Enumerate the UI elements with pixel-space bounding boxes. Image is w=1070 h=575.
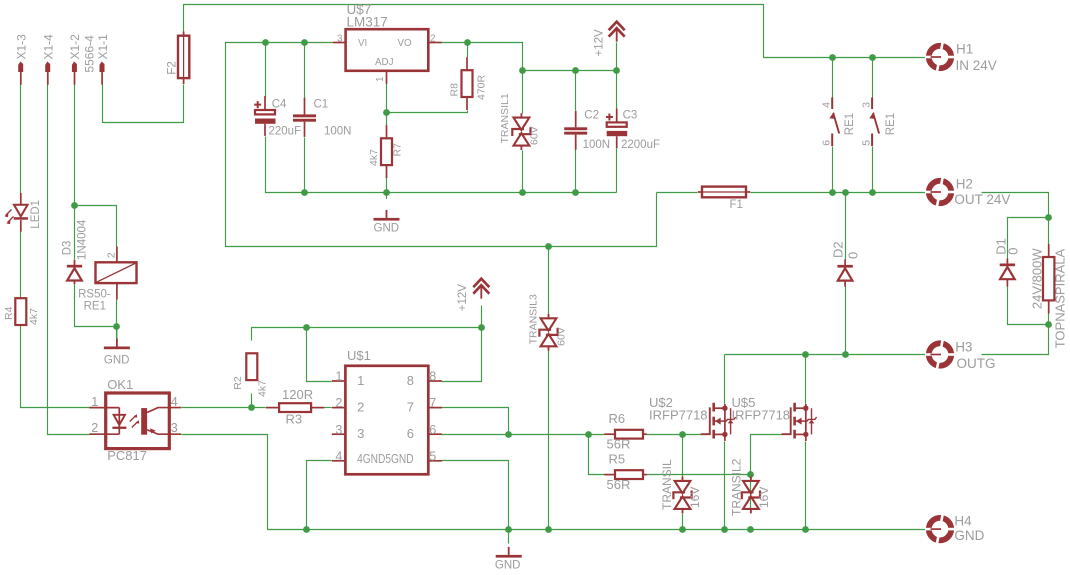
junction rail-TR1 (519, 189, 526, 196)
wire X1-2 to relay coil pin2 (75, 206, 117, 247)
wire IN24V to contact RE1 pin4 (832, 58, 834, 98)
svg-text:0: 0 (845, 252, 860, 259)
junction OUT-RE1b (869, 189, 876, 196)
diode D2 (844, 259, 846, 265)
svg-text:C4: C4 (272, 99, 287, 111)
svg-text:1: 1 (357, 373, 364, 388)
wire OUTG to U$5 drain (805, 355, 807, 404)
wire top to D1 (1008, 218, 1049, 259)
svg-text:H3: H3 (955, 340, 972, 355)
svg-text:5: 5 (429, 449, 436, 463)
resistor R8 (466, 57, 468, 70)
svg-text:60V: 60V (528, 126, 540, 145)
resistor R6 (604, 433, 615, 435)
svg-text:GND: GND (954, 528, 984, 543)
svg-text:4k7: 4k7 (368, 149, 380, 166)
optocoupler OK1 PC817 (106, 393, 170, 449)
svg-text:VI: VI (358, 38, 367, 49)
svg-text:1: 1 (375, 77, 386, 82)
svg-text:1N4004: 1N4004 (77, 219, 89, 260)
capacitor C1 (293, 114, 316, 117)
wire R7 bottom to rail (386, 165, 388, 193)
wire VI to C4 top (265, 43, 267, 98)
junction OUT-RE1a (829, 189, 836, 196)
svg-text:R4: R4 (3, 306, 15, 320)
wire R4 to OK1 pin1 (21, 326, 90, 408)
wire F1 to H2 OUT24V (751, 192, 926, 194)
fuse F2 (183, 32, 185, 37)
svg-text:LED1: LED1 (30, 200, 42, 229)
wire X1-4 to OK1 pin2 (48, 85, 90, 435)
svg-text:TRANSIL3: TRANSIL3 (527, 294, 539, 344)
junction OUT-D2 (842, 189, 849, 196)
svg-text:2: 2 (335, 396, 342, 410)
wire R3 to U$1 pin2 (325, 407, 332, 409)
wire node to R5 (589, 435, 605, 475)
svg-text:+12V: +12V (457, 284, 469, 312)
supply +12V arrow above U$1 (473, 279, 489, 288)
junction R2-R3 (248, 404, 255, 411)
svg-text:PC817: PC817 (107, 448, 147, 463)
svg-text:U$1: U$1 (347, 348, 371, 363)
wire TRANSIL2 node to U$5 gate (751, 435, 783, 475)
ground symbol under U$1 rail (508, 547, 510, 555)
svg-text:C3: C3 (623, 110, 638, 122)
wire top to load R (1048, 218, 1050, 245)
svg-text:R2: R2 (232, 376, 244, 390)
wire +12V row R2 to arrow (252, 328, 482, 341)
svg-text:+12V: +12V (594, 29, 606, 57)
junction gnd-pin4 (303, 526, 310, 533)
svg-text:6: 6 (820, 140, 832, 146)
junction gnd-U$5 (802, 526, 809, 533)
svg-text:1: 1 (335, 370, 342, 384)
svg-text:56R: 56R (607, 477, 631, 492)
svg-text:LM317: LM317 (347, 14, 388, 29)
svg-text:RE1: RE1 (885, 113, 897, 135)
svg-text:ADJ: ADJ (375, 57, 394, 68)
resistor R2 (246, 353, 257, 380)
wire gnd rail to GND sym (508, 530, 510, 544)
svg-text:X1-1: X1-1 (96, 34, 110, 60)
wire X1-2 down to D3 (74, 85, 76, 260)
svg-text:16V: 16V (688, 487, 702, 508)
wire ADJ node to R8 bottom (387, 111, 468, 113)
junction rail-R7 (383, 189, 390, 196)
wire C3 bottom to rail (616, 149, 618, 193)
svg-text:F2: F2 (166, 61, 178, 74)
wire +12V to C3 top (616, 71, 618, 109)
junction OUTG-U$5 (802, 351, 809, 358)
resistor R7 (386, 125, 388, 138)
svg-text:X1-4: X1-4 (41, 34, 55, 60)
svg-text:8: 8 (429, 370, 436, 384)
svg-text:470R: 470R (475, 74, 487, 100)
wire +12V to C2 top (575, 71, 577, 111)
svg-text:4: 4 (171, 395, 178, 409)
svg-text:X1-3: X1-3 (15, 34, 29, 60)
junction gnd-U$2 (721, 526, 728, 533)
wire C2 bottom to rail (575, 150, 577, 193)
wire LED1 to R4 (20, 232, 22, 299)
junction IN-RE1a (829, 54, 836, 61)
junction 12V-C2 (572, 67, 579, 74)
wire load bottom to H3 (982, 325, 1049, 355)
wire VI to C1 top (304, 43, 306, 99)
connector pin X1-4 (45, 62, 50, 73)
junction 12V-C3 (613, 67, 620, 74)
connector H2 (929, 181, 951, 203)
svg-text:2: 2 (357, 400, 364, 415)
junction R5-TRANSIL2 (747, 471, 754, 478)
wire TRANSIL3 bottom to gnd rail (548, 351, 550, 530)
wire +12V to U$1 pin1 (307, 328, 332, 382)
junction 12V-arrow (478, 324, 485, 331)
svg-text:24V/800W: 24V/800W (1029, 248, 1044, 309)
wire +12V to U$1 pin8 (442, 328, 482, 382)
wire coil node to GND sym (116, 327, 118, 339)
svg-text:2200uF: 2200uF (621, 139, 660, 151)
wire F2 to H1 IN24V bus (184, 5, 926, 58)
svg-text:H1: H1 (956, 42, 973, 57)
svg-text:120R: 120R (282, 387, 313, 402)
junction R6-R5 (585, 431, 592, 438)
wire +12V rail to supply arrow (616, 43, 618, 71)
wire U$1 pin6 to R6 (442, 434, 605, 436)
junction ADJ (383, 109, 390, 116)
connector H4 (929, 518, 951, 540)
svg-text:H2: H2 (956, 177, 973, 192)
svg-text:GND: GND (495, 560, 521, 572)
svg-text:3: 3 (337, 34, 343, 45)
junction loop-TR3 (545, 243, 552, 250)
svg-text:TRANSIL1: TRANSIL1 (499, 93, 511, 143)
connector H3 (929, 343, 951, 365)
supply +12V arrow near C3 (609, 22, 625, 31)
wire C4 bottom + LM gnd rail (266, 137, 617, 193)
wire OUTG to U$2 drain (724, 355, 726, 404)
svg-text:4k7: 4k7 (28, 308, 40, 325)
junction OUTG-D2 (842, 351, 849, 358)
IC U$1 (345, 366, 428, 475)
junction gnd-TRANSIL2 (747, 526, 754, 533)
junction 12V-pin1 (303, 324, 310, 331)
junction IN-RE1b (869, 54, 876, 61)
svg-text:8: 8 (407, 373, 414, 388)
resistor R5 (604, 474, 615, 476)
wire VO to R8 top (467, 43, 469, 58)
junction pin7-pin6 (505, 431, 512, 438)
wire D3 bottom to coil gnd (75, 285, 117, 327)
wire D1 bottom (1008, 287, 1049, 325)
svg-text:4GND5GND: 4GND5GND (357, 452, 414, 466)
relay coil RE1 RS50 (116, 247, 118, 263)
svg-text:R6: R6 (609, 411, 626, 426)
junction VI-C1 (301, 39, 308, 46)
svg-text:5566-4: 5566-4 (82, 35, 96, 73)
svg-text:R3: R3 (286, 412, 303, 427)
wire gate node to TRANSIL (682, 435, 684, 477)
wire load R bottom (1048, 314, 1050, 325)
svg-text:6: 6 (429, 423, 436, 437)
svg-text:7: 7 (429, 396, 436, 410)
junction coil-gnd (113, 323, 120, 330)
junction load-top (1045, 214, 1052, 221)
wire LM317 VO to +12V rail (442, 43, 617, 71)
svg-text:IN 24V: IN 24V (956, 58, 997, 73)
svg-text:3: 3 (335, 423, 342, 437)
wire U$2 source to gnd rail (724, 442, 726, 530)
junction VI-C4 (262, 39, 269, 46)
connector pin X1-3 (18, 62, 23, 73)
wire TRANSIL to gnd rail (682, 514, 684, 530)
wire U$5 source to gnd rail (805, 442, 807, 530)
svg-text:IRFP7718: IRFP7718 (732, 408, 791, 423)
svg-text:RE1: RE1 (84, 301, 106, 313)
svg-text:220uF: 220uF (269, 126, 302, 138)
svg-text:D3: D3 (62, 241, 74, 256)
capacitor C3 (606, 114, 613, 121)
connector pin X1-1 (100, 62, 105, 73)
resistor R4 (20, 297, 22, 299)
svg-text:0: 0 (1006, 248, 1021, 255)
svg-text:16V: 16V (757, 487, 771, 508)
svg-text:IRFP7718: IRFP7718 (649, 408, 708, 423)
svg-text:4: 4 (335, 449, 342, 463)
svg-text:C2: C2 (584, 110, 599, 122)
svg-text:1: 1 (91, 395, 98, 409)
wire TRANSIL1 bottom to rail (522, 151, 524, 193)
wire R5 to TRANSIL2 node (647, 474, 751, 476)
wire U$1 pin7 to pin6 node (442, 408, 509, 435)
wire OUT24V to D2 (845, 193, 847, 260)
wire D2 to OUTG (845, 287, 847, 355)
junction gnd-TR3 (545, 526, 552, 533)
svg-text:F1: F1 (730, 199, 743, 211)
wire ADJ node to R7 top (386, 113, 388, 126)
svg-text:2: 2 (430, 34, 435, 45)
svg-text:RE1: RE1 (844, 113, 856, 135)
svg-text:2: 2 (91, 421, 98, 435)
svg-text:X1-2: X1-2 (68, 34, 82, 60)
capacitor C4 (254, 101, 261, 108)
transil TRANSIL2 (743, 481, 759, 493)
svg-text:6: 6 (407, 426, 414, 441)
svg-text:100N: 100N (583, 139, 611, 151)
wire R6 to U$2 gate (647, 434, 702, 436)
load resistor TOPNASPIRALA (1048, 244, 1050, 257)
wire U$1 pin5 to gnd rail (442, 461, 509, 530)
wire arrow2 stem (481, 306, 483, 328)
wire OK1 pin3 to gnd rail to H4 (182, 435, 926, 530)
relay contact RE1 4/6 (831, 97, 833, 109)
svg-text:TRANSIL2: TRANSIL2 (730, 458, 744, 516)
wire C1 bottom to rail (304, 138, 306, 193)
transistor U$2 IRFP7718 (701, 407, 710, 434)
svg-text:VO: VO (398, 38, 413, 49)
wire IN24V to contact RE1 pin3 (872, 58, 874, 98)
wire H2 right to D1/load top (982, 193, 1049, 218)
capacitor C2 (564, 127, 587, 130)
junction gate-TRANSIL (679, 431, 686, 438)
svg-text:4: 4 (820, 102, 832, 108)
svg-text:C1: C1 (314, 99, 329, 111)
svg-text:3: 3 (357, 426, 364, 441)
svg-text:R8: R8 (449, 83, 461, 97)
junction 12V-TR1 (519, 67, 526, 74)
connector pin X1-2 (72, 62, 77, 73)
svg-text:H4: H4 (954, 513, 972, 528)
svg-text:OK1: OK1 (107, 377, 133, 392)
diode D3 (74, 260, 76, 265)
transil TRANSIL1 (514, 118, 530, 130)
wire R2 bottom (251, 394, 253, 408)
svg-text:3: 3 (861, 102, 873, 108)
wire OK1 pin4 to R3 (182, 407, 266, 409)
svg-text:60V: 60V (555, 327, 567, 346)
connector H1 (929, 46, 951, 68)
wire 24V loop to TRANSIL3 (548, 247, 550, 315)
relay contact RE1 3/5 (871, 97, 873, 109)
junction gnd-TRANSIL (679, 526, 686, 533)
transil TRANSIL (675, 481, 691, 493)
wire OUTG row (725, 354, 926, 356)
junction rail-C2 (572, 189, 579, 196)
ground symbol under relay (116, 326, 118, 339)
junction VO-R8 (464, 39, 471, 46)
wire X1-3 to LED1 (20, 85, 22, 194)
junction gnd-pin5 (505, 526, 512, 533)
wire transil2 stub (750, 477, 752, 514)
wire OUT24V loop to LM317 VI (226, 43, 657, 247)
resistor R3 (266, 407, 279, 409)
transistor U$5 IRFP7718 (782, 407, 791, 434)
LED LED1 (20, 193, 22, 205)
wire LM317 ADJ down (386, 84, 388, 113)
wire coil pin1 down (116, 300, 118, 327)
svg-text:TOPNASPIRALA: TOPNASPIRALA (1053, 249, 1068, 349)
junction X1-2-D3 (71, 202, 78, 209)
transil TRANSIL3 (541, 318, 557, 330)
svg-text:GND: GND (374, 223, 400, 235)
svg-text:D2: D2 (830, 241, 845, 258)
svg-text:GND: GND (104, 355, 130, 367)
wire U$1 pin4 to gnd rail (307, 461, 332, 530)
svg-text:R5: R5 (609, 452, 626, 467)
diode D1 (1006, 259, 1008, 265)
svg-text:R7: R7 (392, 143, 404, 157)
voltage regulator U$7 LM317 (346, 29, 429, 71)
svg-text:100N: 100N (324, 126, 352, 138)
svg-text:7: 7 (407, 400, 414, 415)
wire loop to F1 (657, 192, 698, 194)
svg-text:OUT 24V: OUT 24V (954, 192, 1010, 207)
svg-text:4k7: 4k7 (256, 380, 268, 397)
wire +12V to TRANSIL1 top (522, 71, 524, 114)
ground symbol under R7 (386, 192, 388, 199)
junction load-bottom (1045, 321, 1052, 328)
svg-text:2: 2 (106, 252, 118, 258)
svg-text:OUTG: OUTG (957, 356, 996, 371)
junction rail-C1 (301, 189, 308, 196)
wire contact RE1 pin5 to OUT24V (872, 147, 874, 193)
svg-text:5: 5 (861, 140, 873, 146)
svg-text:RS50-: RS50- (78, 289, 111, 301)
svg-text:3: 3 (171, 421, 178, 435)
svg-text:56R: 56R (607, 437, 631, 452)
fuse F1 (698, 191, 702, 193)
wire contact RE1 pin6 to OUT24V (832, 147, 834, 193)
wire X1-1 to F2 (103, 85, 184, 123)
svg-text:TRANSIL: TRANSIL (660, 459, 674, 510)
